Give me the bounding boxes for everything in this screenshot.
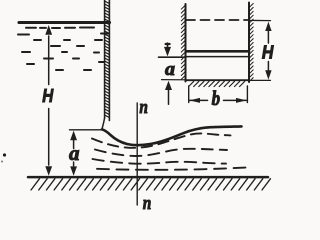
svg-text:a: a (69, 141, 80, 165)
svg-text:n: n (139, 97, 148, 118)
svg-text:H: H (262, 43, 274, 63)
svg-text:H: H (42, 86, 54, 106)
svg-text:b: b (212, 86, 221, 110)
svg-text:n: n (143, 193, 152, 213)
svg-text:a: a (165, 59, 176, 80)
